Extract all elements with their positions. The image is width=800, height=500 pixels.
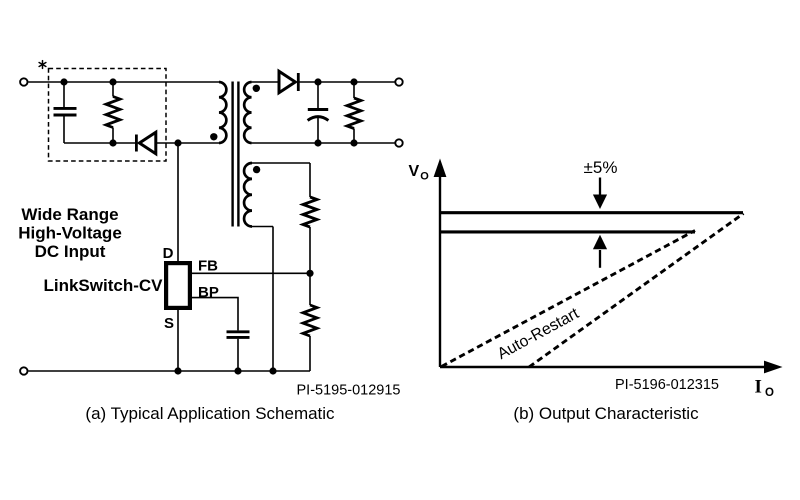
- svg-text:(a) Typical Application Schema: (a) Typical Application Schematic: [85, 404, 335, 423]
- svg-text:FB: FB: [198, 258, 218, 275]
- svg-text:(b) Output Characteristic: (b) Output Characteristic: [513, 404, 699, 423]
- svg-text:LinkSwitch-CV: LinkSwitch-CV: [43, 276, 163, 295]
- svg-text:BP: BP: [198, 284, 219, 301]
- svg-text:PI-5196-012315: PI-5196-012315: [615, 377, 719, 393]
- svg-text:O: O: [765, 387, 774, 399]
- svg-text:Wide Range: Wide Range: [21, 205, 118, 224]
- svg-text:±5%: ±5%: [584, 158, 618, 177]
- svg-text:DC Input: DC Input: [35, 242, 106, 261]
- svg-text:O: O: [420, 171, 429, 183]
- svg-text:D: D: [163, 245, 174, 262]
- svg-text:I: I: [755, 377, 762, 398]
- svg-text:V: V: [409, 163, 420, 180]
- svg-text:PI-5195-012915: PI-5195-012915: [297, 383, 401, 399]
- svg-text:S: S: [164, 315, 174, 332]
- svg-text:High-Voltage: High-Voltage: [18, 224, 122, 243]
